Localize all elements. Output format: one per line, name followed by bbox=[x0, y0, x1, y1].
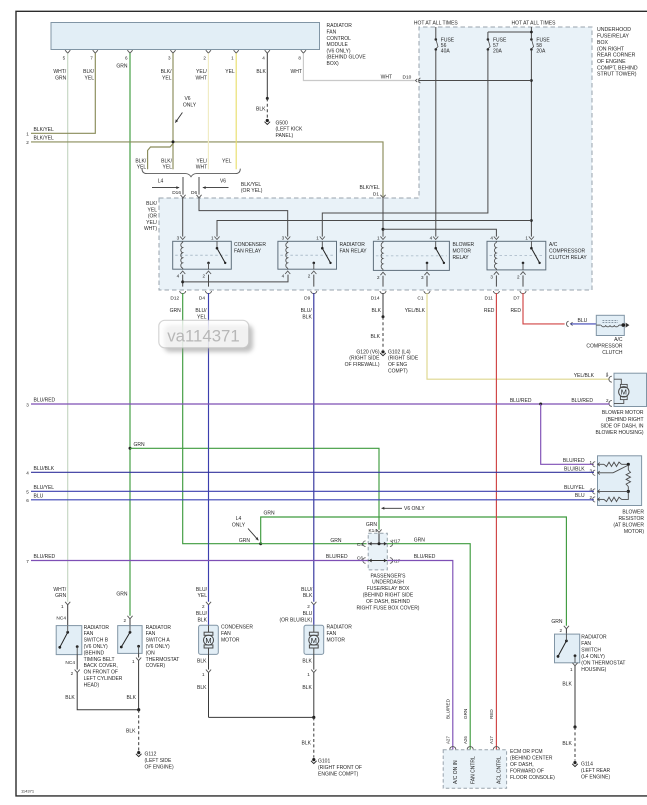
svg-text:YEL/BLK: YEL/BLK bbox=[574, 373, 595, 379]
svg-text:GRN: GRN bbox=[116, 63, 128, 69]
svg-text:H17: H17 bbox=[392, 559, 401, 565]
svg-text:GRN: GRN bbox=[55, 593, 67, 599]
svg-text:4: 4 bbox=[26, 471, 29, 476]
svg-text:(V6 ONLY): (V6 ONLY) bbox=[146, 644, 170, 650]
svg-text:STRUT TOWER): STRUT TOWER) bbox=[597, 72, 637, 78]
svg-text:MOTOR: MOTOR bbox=[327, 637, 346, 643]
svg-text:3: 3 bbox=[421, 275, 424, 280]
svg-text:4: 4 bbox=[490, 236, 493, 241]
svg-text:7: 7 bbox=[90, 55, 93, 60]
svg-text:BLOWER: BLOWER bbox=[453, 242, 475, 248]
svg-text:FAN: FAN bbox=[84, 631, 94, 637]
svg-text:MOTOR: MOTOR bbox=[221, 637, 240, 643]
svg-text:TIMING BELT: TIMING BELT bbox=[84, 657, 115, 663]
svg-text:COMPRESSOR: COMPRESSOR bbox=[549, 248, 586, 254]
svg-text:BLU/: BLU/ bbox=[301, 587, 313, 593]
svg-text:BLK/YEL: BLK/YEL bbox=[34, 136, 55, 142]
svg-text:RADIATOR: RADIATOR bbox=[84, 625, 110, 631]
svg-text:FAN RELAY: FAN RELAY bbox=[340, 248, 368, 254]
svg-text:1: 1 bbox=[231, 55, 234, 60]
svg-text:BOX: BOX bbox=[597, 40, 608, 46]
svg-text:RED: RED bbox=[510, 308, 521, 314]
svg-text:CLUTCH RELAY: CLUTCH RELAY bbox=[549, 255, 587, 261]
svg-text:BLK: BLK bbox=[197, 685, 207, 691]
svg-text:SWITCH B: SWITCH B bbox=[84, 638, 109, 644]
svg-text:YEL: YEL bbox=[222, 158, 232, 164]
svg-text:GRN: GRN bbox=[170, 308, 182, 314]
svg-text:G112: G112 bbox=[145, 752, 157, 758]
svg-text:2: 2 bbox=[26, 140, 29, 145]
svg-text:FAN: FAN bbox=[327, 30, 337, 36]
svg-text:CLUTCH: CLUTCH bbox=[602, 350, 623, 356]
svg-text:1: 1 bbox=[132, 659, 135, 664]
svg-text:MODULE: MODULE bbox=[327, 42, 349, 48]
svg-text:WHT: WHT bbox=[196, 75, 207, 81]
svg-text:BLU/RED: BLU/RED bbox=[34, 398, 56, 404]
svg-text:BLK: BLK bbox=[371, 334, 381, 340]
svg-text:3: 3 bbox=[168, 55, 171, 60]
svg-text:CONDENSER: CONDENSER bbox=[234, 242, 266, 248]
svg-text:BLK/YEL: BLK/YEL bbox=[241, 182, 262, 188]
svg-text:G120 (V6): G120 (V6) bbox=[356, 349, 379, 355]
svg-text:3: 3 bbox=[490, 274, 493, 279]
svg-text:BLK: BLK bbox=[256, 69, 266, 75]
svg-text:YEL/BLK: YEL/BLK bbox=[405, 308, 426, 314]
svg-text:C4: C4 bbox=[357, 542, 363, 548]
svg-text:LEFT CYLINDER: LEFT CYLINDER bbox=[84, 676, 123, 682]
svg-text:OF ENG: OF ENG bbox=[388, 362, 407, 368]
svg-text:FUSE/RELAY: FUSE/RELAY bbox=[597, 34, 629, 40]
svg-text:GRN: GRN bbox=[134, 442, 146, 448]
svg-text:(OR: (OR bbox=[148, 214, 158, 220]
svg-text:PASSENGER'S: PASSENGER'S bbox=[370, 573, 406, 579]
svg-text:2: 2 bbox=[377, 275, 380, 280]
svg-text:D9: D9 bbox=[304, 296, 310, 302]
svg-text:HEAD): HEAD) bbox=[84, 682, 100, 688]
svg-text:40A: 40A bbox=[441, 49, 451, 55]
svg-text:4: 4 bbox=[430, 236, 433, 241]
svg-text:GRN: GRN bbox=[55, 75, 67, 81]
svg-text:2: 2 bbox=[517, 274, 520, 279]
svg-text:8: 8 bbox=[298, 55, 301, 60]
svg-text:CONDENSER: CONDENSER bbox=[221, 625, 253, 631]
svg-text:YEL: YEL bbox=[163, 165, 173, 171]
svg-text:MOTOR: MOTOR bbox=[453, 248, 472, 254]
svg-text:ACL CNTRL: ACL CNTRL bbox=[497, 756, 503, 784]
svg-text:(ON: (ON bbox=[146, 650, 156, 656]
svg-text:(V6 ONLY): (V6 ONLY) bbox=[84, 644, 108, 650]
svg-text:D7: D7 bbox=[513, 296, 519, 302]
svg-text:BLU/YEL: BLU/YEL bbox=[34, 485, 55, 491]
svg-text:GRN: GRN bbox=[264, 511, 276, 517]
svg-text:(RIGHT SIDE: (RIGHT SIDE bbox=[388, 356, 419, 362]
svg-text:1: 1 bbox=[377, 236, 380, 241]
svg-text:HOT AT ALL TIMES: HOT AT ALL TIMES bbox=[414, 21, 459, 27]
svg-text:BLK: BLK bbox=[302, 314, 312, 320]
svg-text:D12: D12 bbox=[170, 296, 179, 302]
svg-text:RADIATOR: RADIATOR bbox=[581, 634, 607, 640]
svg-text:D14: D14 bbox=[371, 296, 380, 302]
svg-text:GRN: GRN bbox=[463, 709, 468, 719]
svg-text:RESISTOR: RESISTOR bbox=[619, 516, 645, 522]
svg-text:BLK: BLK bbox=[126, 729, 136, 735]
svg-text:NC4: NC4 bbox=[65, 660, 75, 666]
svg-text:YEL: YEL bbox=[85, 75, 95, 81]
svg-text:FLOOR CONSOLE): FLOOR CONSOLE) bbox=[510, 775, 555, 781]
svg-text:RED: RED bbox=[489, 709, 494, 719]
svg-text:BLU/BLK: BLU/BLK bbox=[34, 466, 55, 472]
svg-text:FAN RELAY: FAN RELAY bbox=[234, 248, 262, 254]
svg-text:FAN: FAN bbox=[221, 631, 231, 637]
svg-text:BLU: BLU bbox=[34, 493, 44, 499]
svg-text:HOT AT ALL TIMES: HOT AT ALL TIMES bbox=[512, 21, 557, 27]
svg-text:COMPRESSOR: COMPRESSOR bbox=[586, 343, 623, 349]
svg-text:YEL/: YEL/ bbox=[196, 158, 207, 164]
svg-text:2: 2 bbox=[606, 398, 609, 403]
svg-text:BOX): BOX) bbox=[327, 61, 340, 67]
svg-text:BLU/RED: BLU/RED bbox=[414, 554, 436, 560]
svg-text:(BEHIND GLOVE: (BEHIND GLOVE bbox=[327, 55, 367, 61]
svg-text:SWITCH: SWITCH bbox=[581, 647, 601, 653]
svg-text:D6: D6 bbox=[191, 190, 197, 196]
svg-text:6: 6 bbox=[125, 55, 128, 60]
svg-text:BLU/YEL: BLU/YEL bbox=[564, 485, 585, 491]
svg-text:L4: L4 bbox=[236, 516, 242, 522]
svg-text:BLK/YEL: BLK/YEL bbox=[360, 185, 381, 191]
svg-text:4: 4 bbox=[177, 274, 180, 279]
svg-text:UNDERDASH: UNDERDASH bbox=[372, 580, 404, 586]
svg-text:(BEHIND RIGHT SIDE: (BEHIND RIGHT SIDE bbox=[363, 593, 414, 599]
svg-text:1: 1 bbox=[307, 672, 310, 677]
svg-text:BLK/: BLK/ bbox=[83, 69, 94, 75]
svg-text:BLU/: BLU/ bbox=[195, 308, 207, 314]
svg-text:UNDERHOOD: UNDERHOOD bbox=[597, 27, 631, 33]
svg-text:BLK: BLK bbox=[562, 681, 572, 687]
svg-text:BLK: BLK bbox=[562, 741, 572, 747]
svg-text:(LEFT KICK: (LEFT KICK bbox=[276, 127, 304, 133]
svg-text:(LEFT SIDE: (LEFT SIDE bbox=[145, 758, 173, 764]
svg-text:1: 1 bbox=[589, 460, 592, 465]
svg-text:BACK COVER,: BACK COVER, bbox=[84, 663, 118, 669]
svg-text:BLU/: BLU/ bbox=[196, 611, 208, 617]
svg-text:YEL/: YEL/ bbox=[146, 220, 157, 226]
svg-text:FAN CNTRL: FAN CNTRL bbox=[471, 756, 477, 784]
svg-text:FAN: FAN bbox=[146, 631, 156, 637]
svg-text:2: 2 bbox=[123, 618, 126, 623]
svg-text:BLK/: BLK/ bbox=[161, 69, 172, 75]
svg-text:BLK/: BLK/ bbox=[146, 201, 157, 207]
svg-text:3: 3 bbox=[177, 236, 180, 241]
svg-text:BLU: BLU bbox=[578, 318, 588, 324]
svg-text:5: 5 bbox=[63, 55, 66, 60]
svg-text:ON FRONT OF: ON FRONT OF bbox=[84, 670, 118, 676]
svg-text:SIDE OF DASH, IN: SIDE OF DASH, IN bbox=[600, 423, 643, 429]
svg-text:A17: A17 bbox=[489, 736, 494, 744]
svg-text:A26: A26 bbox=[463, 736, 468, 744]
svg-text:BLK/: BLK/ bbox=[135, 158, 146, 164]
svg-text:(ON RIGHT: (ON RIGHT bbox=[597, 46, 625, 52]
svg-text:HOUSING): HOUSING) bbox=[581, 667, 606, 673]
svg-text:114371: 114371 bbox=[21, 788, 35, 793]
svg-text:WHT/: WHT/ bbox=[53, 69, 66, 75]
svg-text:COVER): COVER) bbox=[146, 663, 166, 669]
svg-text:(BEHIND RIGHT: (BEHIND RIGHT bbox=[606, 417, 644, 423]
svg-text:GRN: GRN bbox=[116, 592, 128, 598]
svg-text:WHT/: WHT/ bbox=[53, 587, 66, 593]
svg-text:WHT: WHT bbox=[381, 74, 392, 80]
svg-text:BLU: BLU bbox=[575, 493, 585, 499]
svg-text:BLU/RED: BLU/RED bbox=[510, 398, 532, 404]
svg-text:L4: L4 bbox=[158, 179, 164, 185]
svg-text:YEL: YEL bbox=[198, 593, 208, 599]
svg-text:M: M bbox=[621, 387, 627, 396]
svg-text:GRN: GRN bbox=[366, 522, 378, 528]
svg-text:BLK: BLK bbox=[65, 695, 75, 701]
svg-text:RADIATOR: RADIATOR bbox=[340, 242, 366, 248]
svg-text:BLU/RED: BLU/RED bbox=[563, 458, 585, 464]
svg-text:BLU/: BLU/ bbox=[301, 308, 313, 314]
svg-text:1: 1 bbox=[26, 132, 29, 137]
svg-text:D10: D10 bbox=[403, 74, 412, 80]
svg-text:BLOWER MOTOR: BLOWER MOTOR bbox=[602, 410, 644, 416]
svg-text:BLU/BLK: BLU/BLK bbox=[564, 467, 585, 473]
svg-text:BLK: BLK bbox=[127, 695, 137, 701]
svg-text:BLU: BLU bbox=[303, 611, 313, 617]
svg-text:4: 4 bbox=[282, 274, 285, 279]
svg-text:G114: G114 bbox=[581, 762, 593, 768]
svg-text:FAN: FAN bbox=[581, 641, 591, 647]
svg-text:RADIATOR: RADIATOR bbox=[146, 625, 172, 631]
svg-text:GRN: GRN bbox=[414, 537, 426, 543]
svg-text:ECM OR PCM: ECM OR PCM bbox=[510, 749, 543, 755]
svg-text:YEL/: YEL/ bbox=[196, 69, 207, 75]
svg-text:4: 4 bbox=[262, 55, 265, 60]
svg-text:COMPT): COMPT) bbox=[388, 369, 408, 375]
svg-text:(OR BLU/BLK): (OR BLU/BLK) bbox=[280, 618, 313, 624]
svg-text:1: 1 bbox=[211, 236, 214, 241]
svg-text:YEL: YEL bbox=[162, 75, 172, 81]
svg-text:V6: V6 bbox=[184, 96, 190, 102]
svg-text:(BEHIND: (BEHIND bbox=[84, 650, 105, 656]
svg-text:GRN: GRN bbox=[330, 538, 342, 544]
svg-text:va114371: va114371 bbox=[167, 327, 239, 346]
svg-text:ONLY: ONLY bbox=[232, 522, 246, 528]
svg-text:(L4 ONLY): (L4 ONLY) bbox=[581, 654, 605, 660]
svg-text:WHT): WHT) bbox=[144, 226, 157, 232]
svg-text:BLK: BLK bbox=[256, 106, 266, 112]
svg-text:GRN: GRN bbox=[551, 619, 563, 625]
svg-text:2: 2 bbox=[202, 604, 205, 609]
svg-text:RELAY: RELAY bbox=[453, 255, 470, 261]
svg-text:RADIATOR: RADIATOR bbox=[327, 23, 353, 29]
svg-text:D16: D16 bbox=[172, 190, 181, 196]
svg-text:PANEL): PANEL) bbox=[276, 133, 294, 139]
svg-text:1: 1 bbox=[606, 371, 609, 376]
svg-text:(ON THERMOSTAT: (ON THERMOSTAT bbox=[581, 660, 625, 666]
svg-text:FUSE/RELAY BOX: FUSE/RELAY BOX bbox=[367, 586, 410, 592]
svg-text:BLK: BLK bbox=[198, 618, 208, 624]
svg-text:OF FIREWALL): OF FIREWALL) bbox=[345, 362, 380, 368]
svg-text:1: 1 bbox=[570, 667, 573, 672]
svg-text:(V6 ONLY): (V6 ONLY) bbox=[327, 48, 351, 54]
svg-text:M: M bbox=[311, 636, 317, 645]
svg-text:V6 ONLY: V6 ONLY bbox=[404, 506, 425, 512]
svg-text:BLU/RED: BLU/RED bbox=[326, 554, 348, 560]
svg-text:2: 2 bbox=[307, 604, 310, 609]
svg-text:D1: D1 bbox=[373, 191, 379, 197]
svg-text:CONTROL: CONTROL bbox=[327, 36, 352, 42]
svg-text:ONLY: ONLY bbox=[183, 102, 197, 108]
svg-text:3: 3 bbox=[282, 236, 285, 241]
svg-text:20A: 20A bbox=[536, 49, 546, 55]
svg-text:2: 2 bbox=[71, 671, 74, 676]
svg-text:BLOWER HOUSING): BLOWER HOUSING) bbox=[595, 430, 643, 436]
svg-text:BLK: BLK bbox=[303, 593, 313, 599]
svg-text:C1: C1 bbox=[417, 296, 423, 302]
svg-text:1: 1 bbox=[202, 672, 205, 677]
svg-text:1: 1 bbox=[316, 236, 319, 241]
svg-text:REAR CORNER: REAR CORNER bbox=[597, 53, 636, 59]
svg-text:BLK: BLK bbox=[302, 659, 312, 665]
svg-text:(OR YEL): (OR YEL) bbox=[241, 188, 263, 194]
svg-text:G102 (L4): G102 (L4) bbox=[388, 349, 411, 355]
svg-text:BLU/RED: BLU/RED bbox=[34, 554, 56, 560]
svg-text:YEL: YEL bbox=[137, 165, 147, 171]
svg-text:RIGHT FUSE BOX COVER): RIGHT FUSE BOX COVER) bbox=[357, 605, 420, 611]
svg-text:GRN: GRN bbox=[239, 538, 251, 544]
svg-text:RADIATOR: RADIATOR bbox=[327, 625, 353, 631]
svg-text:A/C ON IN: A/C ON IN bbox=[453, 760, 459, 784]
svg-text:1: 1 bbox=[525, 236, 528, 241]
svg-text:2: 2 bbox=[203, 55, 206, 60]
svg-text:OF ENGINE: OF ENGINE bbox=[597, 59, 626, 65]
svg-text:6: 6 bbox=[26, 498, 29, 503]
svg-text:1: 1 bbox=[61, 604, 64, 609]
svg-text:THERMOSTAT: THERMOSTAT bbox=[146, 657, 180, 663]
svg-text:OF ENGINE): OF ENGINE) bbox=[145, 764, 175, 770]
svg-text:2: 2 bbox=[559, 628, 562, 633]
svg-text:MOTOR): MOTOR) bbox=[624, 529, 645, 535]
svg-text:(LEFT REAR: (LEFT REAR bbox=[581, 768, 610, 774]
svg-text:A/C: A/C bbox=[614, 337, 623, 343]
svg-text:(BEHIND CENTER: (BEHIND CENTER bbox=[510, 755, 553, 761]
svg-text:BLU/: BLU/ bbox=[196, 587, 208, 593]
svg-text:M: M bbox=[205, 636, 211, 645]
svg-text:20A: 20A bbox=[493, 49, 503, 55]
svg-text:V6: V6 bbox=[220, 179, 226, 185]
svg-text:5: 5 bbox=[26, 490, 29, 495]
svg-text:FORWARD OF: FORWARD OF bbox=[510, 768, 544, 774]
svg-text:BLK/: BLK/ bbox=[161, 158, 172, 164]
svg-text:G101: G101 bbox=[318, 759, 330, 765]
svg-text:YEL: YEL bbox=[148, 207, 158, 213]
svg-text:7: 7 bbox=[26, 559, 29, 564]
svg-text:BLK: BLK bbox=[302, 741, 312, 747]
svg-text:OF DASH,: OF DASH, bbox=[510, 762, 534, 768]
svg-text:COMPT, BEHIND: COMPT, BEHIND bbox=[597, 65, 638, 71]
svg-text:D11: D11 bbox=[484, 296, 493, 302]
svg-text:(AT BLOWER: (AT BLOWER bbox=[613, 522, 644, 528]
svg-text:FAN: FAN bbox=[327, 631, 337, 637]
svg-text:YEL: YEL bbox=[197, 314, 207, 320]
svg-text:BLU/RED: BLU/RED bbox=[445, 698, 450, 719]
svg-text:BLK/YEL: BLK/YEL bbox=[34, 127, 55, 133]
svg-text:YEL: YEL bbox=[225, 69, 235, 75]
svg-text:(RIGHT SIDE: (RIGHT SIDE bbox=[349, 356, 380, 362]
svg-text:BLK: BLK bbox=[372, 308, 382, 314]
svg-text:WHT: WHT bbox=[291, 69, 302, 75]
svg-text:3: 3 bbox=[26, 402, 29, 407]
svg-text:RED: RED bbox=[484, 308, 495, 314]
svg-text:BLU/RED: BLU/RED bbox=[571, 398, 593, 404]
svg-text:SWITCH A: SWITCH A bbox=[146, 638, 171, 644]
svg-text:A27: A27 bbox=[445, 736, 450, 744]
svg-text:ENGINE COMPT): ENGINE COMPT) bbox=[318, 771, 359, 777]
svg-text:(RIGHT FRONT OF: (RIGHT FRONT OF bbox=[318, 765, 362, 771]
svg-text:G500: G500 bbox=[276, 120, 288, 126]
svg-text:WHT: WHT bbox=[196, 165, 207, 171]
svg-text:2: 2 bbox=[202, 274, 205, 279]
svg-text:2: 2 bbox=[308, 274, 311, 279]
svg-text:OF DASH, BEHIND: OF DASH, BEHIND bbox=[366, 599, 410, 605]
svg-text:D4: D4 bbox=[199, 296, 205, 302]
svg-text:OF ENGINE): OF ENGINE) bbox=[581, 774, 611, 780]
svg-text:BLK: BLK bbox=[302, 685, 312, 691]
svg-text:BLOWER: BLOWER bbox=[622, 509, 644, 515]
svg-text:A/C: A/C bbox=[549, 242, 558, 248]
svg-text:BLK: BLK bbox=[197, 659, 207, 665]
svg-text:NC4: NC4 bbox=[56, 615, 66, 621]
